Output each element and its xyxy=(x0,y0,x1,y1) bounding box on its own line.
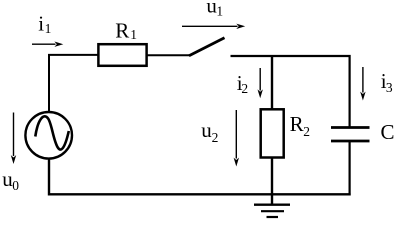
svg-text:R: R xyxy=(290,112,304,136)
svg-text:0: 0 xyxy=(12,178,19,193)
svg-text:2: 2 xyxy=(303,124,310,139)
switch S1 blade xyxy=(189,38,225,56)
svg-text:1: 1 xyxy=(216,4,223,19)
wire top-left corner from source to R1 xyxy=(49,55,98,112)
svg-text:R: R xyxy=(115,18,129,42)
resistor R2 body xyxy=(261,109,284,157)
wire switch to top-right corner with drop to capacitor xyxy=(231,56,350,127)
current arrow i3 xyxy=(360,67,365,101)
voltage arrow u1 xyxy=(182,24,245,29)
svg-text:1: 1 xyxy=(45,21,52,36)
svg-text:2: 2 xyxy=(212,130,219,145)
wire capacitor bottom to bottom rail xyxy=(349,142,351,196)
voltage source V1 (AC) circle xyxy=(25,112,72,159)
voltage arrow u2 xyxy=(234,110,239,167)
current arrow i1 xyxy=(32,42,63,47)
wire R2 bottom through bottom rail to ground xyxy=(271,158,273,204)
wire R1 to switch pivot xyxy=(147,54,190,56)
capacitor C bottom plate xyxy=(331,140,370,143)
wire junction node to R2 top xyxy=(271,56,273,109)
current arrow i2 xyxy=(258,68,263,98)
ground symbol xyxy=(254,205,290,217)
voltage source V1 sine wave xyxy=(35,116,69,149)
capacitor C top plate xyxy=(331,126,370,129)
svg-text:C: C xyxy=(381,120,395,144)
resistor R1 body xyxy=(98,44,146,66)
svg-text:3: 3 xyxy=(386,80,393,95)
wire bottom rail xyxy=(49,159,351,194)
svg-text:i: i xyxy=(38,12,44,36)
svg-text:1: 1 xyxy=(130,27,137,42)
svg-text:2: 2 xyxy=(241,81,248,96)
voltage arrow u0 xyxy=(11,113,16,165)
